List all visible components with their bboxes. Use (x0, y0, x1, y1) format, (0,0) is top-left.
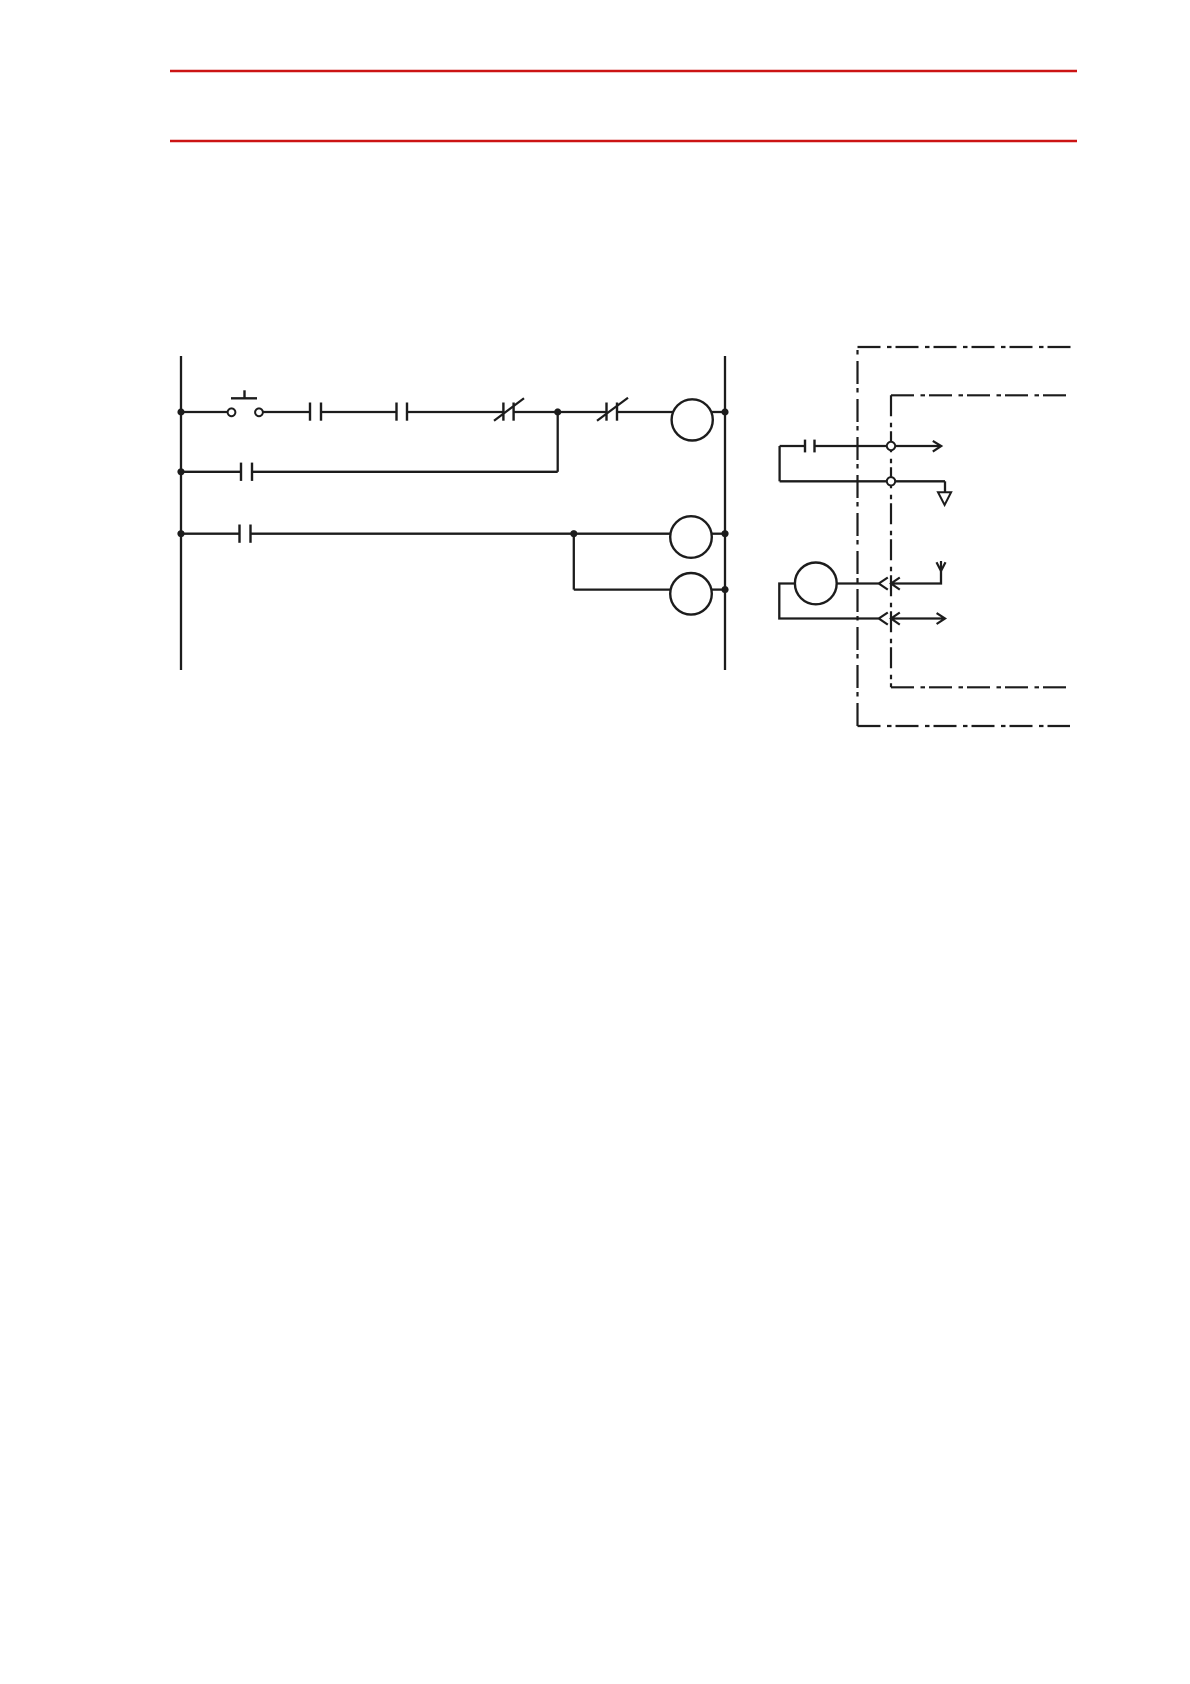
wire rung3 left (181, 533, 240, 535)
wire from plug top (891, 571, 941, 584)
right bus bar (724, 356, 726, 670)
relay contact (capacitor style) (805, 440, 815, 453)
wire sensor bottom bracket (779, 584, 879, 619)
relay contact bracket wire (778, 446, 780, 481)
enclosure boundary outer bottom (chain line) (858, 725, 1071, 727)
connector plug arrow top (891, 578, 900, 590)
wire (711, 411, 725, 413)
wire rung2 left (181, 471, 241, 473)
contact NO 2 (397, 403, 408, 421)
wire branch horizontal (574, 588, 671, 590)
arrow head right (signal out) (933, 441, 941, 452)
wire (514, 411, 607, 413)
wire from plug bottom (891, 617, 945, 619)
arrow head right (signal out bottom) (937, 613, 945, 624)
wire rung2 riser (557, 412, 559, 472)
panel boundary inner top (chain line) (891, 394, 1069, 396)
contact NO rung3 (240, 525, 251, 543)
wire (321, 411, 397, 413)
wire rung1 left (181, 411, 228, 413)
wire rung3 (251, 533, 671, 535)
wire (263, 411, 310, 413)
pushbutton PB (228, 390, 263, 416)
wire (711, 588, 725, 590)
junction dot left rail rung3 (177, 530, 184, 537)
terminal circle T2 (887, 477, 895, 485)
coil M3 (670, 573, 712, 615)
connector socket V top (879, 578, 888, 590)
junction dot right rail branch (721, 586, 728, 593)
connector socket V bottom (879, 613, 888, 625)
coil M1 (672, 399, 713, 440)
terminal circle T1 (887, 442, 895, 450)
connector plug arrow bottom (891, 613, 900, 625)
contact NC 1 (494, 398, 524, 420)
wire to output arrow (815, 445, 941, 447)
wire (617, 411, 673, 413)
wire branch riser down (573, 534, 575, 590)
red rule bottom (170, 140, 1077, 143)
wire rung2 (252, 471, 558, 473)
junction dot right rail rung3 (721, 530, 728, 537)
contact NO 1 (310, 403, 321, 421)
wire (712, 533, 725, 535)
red rule top (170, 70, 1077, 73)
wire (780, 445, 805, 447)
wire (407, 411, 503, 413)
coil M2 (670, 516, 712, 558)
left bus bar (180, 356, 182, 670)
ground arrow (open triangle) (938, 492, 951, 505)
junction dot rung3 branch (570, 530, 577, 537)
wire bottom return (780, 480, 945, 482)
enclosure boundary outer left (chain line) (856, 347, 858, 726)
contact NO rung2 (241, 463, 252, 481)
junction dot left rail rung1 (177, 408, 184, 415)
wire down to ground arrow (944, 481, 946, 492)
contact NC 2 (597, 398, 628, 421)
light input arrow (937, 561, 946, 571)
junction dot right rail rung1 (721, 408, 728, 415)
enclosure boundary outer top (chain line) (858, 346, 1073, 348)
junction dot left rail rung2 (177, 468, 184, 475)
junction dot rung1 branch (554, 408, 561, 415)
panel boundary inner bottom (chain line) (891, 686, 1067, 688)
wire sensor top lead (837, 582, 879, 584)
photo sensor circle (795, 563, 837, 605)
panel boundary inner left (chain line) (890, 395, 892, 687)
